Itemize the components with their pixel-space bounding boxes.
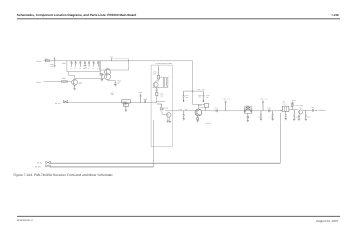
wire mixer collector <box>197 104 199 109</box>
capacitor C405 (pull-up) <box>139 92 143 103</box>
capacitor C423 (series out) <box>311 107 315 112</box>
connector J402 <box>46 161 50 163</box>
svg-text:L405: L405 <box>260 98 263 100</box>
svg-text:C: C <box>169 76 170 78</box>
svg-text:.39u: .39u <box>111 94 114 96</box>
svg-text:C423: C423 <box>311 107 315 109</box>
capacitor C402 (shunt at input) <box>50 57 56 67</box>
svg-text:MHZ: MHZ <box>84 67 87 69</box>
svg-text:CR401: CR401 <box>164 107 169 109</box>
transistor Q402 <box>72 79 83 85</box>
wire Q402 collector to cascode base <box>75 78 105 81</box>
transformer T401 <box>280 101 289 111</box>
label RX FRONTEND (box title) <box>156 62 173 64</box>
wire top rail <box>44 60 193 62</box>
resistor R404 (cascode base) <box>100 73 103 75</box>
supply arrow in box <box>157 66 160 76</box>
label R409 1K <box>292 100 296 104</box>
crystal filter Y401 <box>244 105 252 114</box>
capacitor C415 (series) <box>267 107 271 112</box>
node RX IN (top rail) <box>36 61 41 63</box>
inductor L404 (pull-up) <box>223 98 231 111</box>
label C410 .01u <box>160 93 164 97</box>
svg-text:RX IN: RX IN <box>36 61 41 63</box>
wire Q402 collector to box tap <box>68 72 74 80</box>
capacitor C421 (shunt) <box>298 114 300 120</box>
wire second stage input <box>44 81 72 83</box>
footer rule <box>17 215 340 217</box>
capacitor C422 (shunt) <box>305 110 311 120</box>
header rule <box>17 18 340 20</box>
inductor L405 (pull-up) <box>260 98 268 111</box>
wire Q405 base <box>162 110 167 114</box>
svg-text:RX FRONTEND 44.85M: RX FRONTEND 44.85M <box>156 62 173 64</box>
svg-text:1.2u: 1.2u <box>202 88 205 90</box>
svg-text:Figure 7-163. PML74035A Recei: Figure 7-163. PML74035A Receiver Front-e… <box>14 174 114 178</box>
figure caption <box>14 174 114 178</box>
svg-text:RX IN: RX IN <box>36 81 41 83</box>
transistor Q403a (cascode upper) <box>105 69 111 75</box>
svg-text:Schematics, Component Location: Schematics, Component Location Diagrams,… <box>17 14 137 18</box>
network box (Q401 collector) <box>99 61 128 70</box>
svg-text:C1: C1 <box>79 68 81 70</box>
wire cascode base feed <box>101 72 105 75</box>
resistor R409 leg <box>291 102 293 110</box>
svg-text:6816982H01-A: 6816982H01-A <box>17 219 34 222</box>
svg-text:C416: C416 <box>258 116 261 118</box>
inductor L407 label <box>197 88 204 90</box>
svg-text:R401: R401 <box>62 63 66 65</box>
footer date <box>316 220 339 224</box>
node RX IN 2 (antenna) <box>35 166 41 168</box>
diode CR401 <box>157 104 169 110</box>
svg-text:C412: C412 <box>179 108 183 110</box>
svg-text:C419 .01u 39p: C419 .01u 39p <box>295 105 304 107</box>
capacitor C420 (shunt) <box>293 110 299 121</box>
resistor R406 (vertical in box) <box>157 75 159 79</box>
capacitor C409 (in box) <box>156 87 158 95</box>
svg-text:C406: C406 <box>144 99 148 101</box>
supply +9.3V tick <box>110 56 129 61</box>
label R401 <box>62 63 66 65</box>
svg-text:C420: C420 <box>296 116 299 118</box>
svg-text:100: 100 <box>117 82 120 84</box>
svg-text:39p: 39p <box>206 96 209 98</box>
transistor Q404 (in box) <box>153 82 158 87</box>
wire antenna riser <box>279 113 281 163</box>
svg-text:RX IN: RX IN <box>37 162 42 164</box>
label R407 100 <box>198 94 202 98</box>
capacitor C417 (shunt) <box>269 111 273 121</box>
svg-text:C1: C1 <box>97 68 99 70</box>
svg-text:.01u 1T: .01u 1T <box>282 104 287 106</box>
transistor Q405 (box bottom) <box>167 113 171 117</box>
svg-text:18p: 18p <box>50 65 53 67</box>
capacitor C411 (tap from LO rail) <box>179 91 193 111</box>
svg-text:1.2u: 1.2u <box>227 98 230 100</box>
svg-text:LO INJ: LO INJ <box>206 122 211 124</box>
svg-text:44.85: 44.85 <box>83 65 87 67</box>
svg-text:RX IN 2: RX IN 2 <box>35 166 41 168</box>
svg-text:RX IN 3: RX IN 3 <box>55 102 61 104</box>
svg-text:C: C <box>161 76 162 78</box>
capacitor C413 (LO coupling) <box>193 91 205 102</box>
wire mixer top bus <box>193 103 205 105</box>
wire to IF OUT <box>314 109 317 111</box>
capacitor C416 (shunt) <box>258 111 262 121</box>
wire IF section <box>202 110 282 112</box>
capacitor C406 (on wire) <box>144 99 148 103</box>
capacitor C412 (shunt below) <box>183 111 185 121</box>
svg-text:R402: R402 <box>62 78 66 80</box>
wire mixer input <box>172 110 195 112</box>
header page number <box>331 14 338 17</box>
ground Q405 left <box>167 121 169 123</box>
svg-text:1K: 1K <box>292 102 294 104</box>
wire antenna line <box>50 162 280 164</box>
transistor Q406 mixer <box>195 105 203 116</box>
connector J401 <box>63 100 67 102</box>
wire box left drop <box>151 96 157 103</box>
ground below Q402 <box>73 85 75 90</box>
node RX IN (antenna) <box>37 162 42 164</box>
label L402 <box>110 92 114 96</box>
filter FL401 preselector box <box>67 61 101 72</box>
svg-text:C414: C414 <box>214 107 218 109</box>
svg-text:39p: 39p <box>185 108 188 110</box>
svg-text:T401: T401 <box>282 101 285 103</box>
wire antenna line 2 <box>50 166 154 168</box>
wire cascode emitter <box>108 80 116 83</box>
transistor Q407 buffer <box>299 108 303 115</box>
capacitor ladder in FL401 <box>70 61 99 70</box>
svg-text:1.2u: 1.2u <box>265 98 268 100</box>
svg-text:39p: 39p <box>186 96 189 98</box>
svg-text:Y401: Y401 <box>246 105 249 107</box>
svg-text:L404: L404 <box>223 98 226 100</box>
wire T401 to Q407 <box>289 110 299 111</box>
box RX front end <box>151 65 172 147</box>
wire buffer output <box>303 109 312 111</box>
capacitor C414 (series) <box>214 107 218 112</box>
svg-text:C415: C415 <box>267 107 271 109</box>
svg-text:Q407: Q407 <box>299 108 302 110</box>
wire R406 to Q404 <box>156 79 159 82</box>
header title text <box>17 14 137 18</box>
transistor Q403b (cascode lower) <box>105 74 111 80</box>
resistor R408 (mixer emitter) <box>197 116 199 122</box>
svg-text:C1: C1 <box>74 68 76 70</box>
svg-text:IF 44.85 MHZ: IF 44.85 MHZ <box>316 109 326 111</box>
node RX IN (second stage) <box>36 81 41 83</box>
footer document number <box>17 219 34 222</box>
wire top rail drop <box>192 61 194 105</box>
svg-text:100: 100 <box>153 73 156 75</box>
node IF OUT <box>316 109 326 111</box>
node RX IN 3 label <box>55 102 61 104</box>
resistor R402 <box>62 78 68 83</box>
ground Q405 right <box>169 121 171 123</box>
capacitor T401 bottom leg <box>285 111 287 120</box>
capacitor C407 (in box) <box>161 76 164 87</box>
svg-text:C417: C417 <box>269 116 272 118</box>
svg-text:100: 100 <box>198 96 201 98</box>
ground cascode base <box>101 75 103 81</box>
svg-text:C1: C1 <box>88 68 90 70</box>
connector J403 <box>46 165 50 167</box>
wire box to antenna line <box>153 120 155 167</box>
transformer T402 (LO) <box>205 103 209 110</box>
label 44.85 MHZ in FL401 <box>83 65 87 69</box>
svg-text:7-238: 7-238 <box>331 14 338 17</box>
svg-text:.01u: .01u <box>160 95 163 97</box>
inductor L401 <box>44 58 49 62</box>
filter FL402 <box>122 100 131 103</box>
wire box mid bus <box>153 86 169 88</box>
capacitor C408 (in box) <box>158 76 169 87</box>
svg-text:August 24, 2007: August 24, 2007 <box>316 220 339 224</box>
svg-text:C422: C422 <box>307 117 310 119</box>
svg-text:MIXER: MIXER <box>199 107 203 109</box>
label C419 row <box>295 105 304 107</box>
wire Q405 legs <box>168 117 170 121</box>
svg-text:L407: L407 <box>197 88 200 90</box>
svg-text:L401: L401 <box>44 58 48 60</box>
label LO INJ <box>206 122 211 124</box>
svg-text:9.3V: 9.3V <box>110 56 113 58</box>
svg-text:C1: C1 <box>70 68 72 70</box>
crystal filter ground leg <box>247 114 249 122</box>
wire front-end input <box>64 102 151 104</box>
wire box output <box>165 110 172 112</box>
svg-text:Q402: Q402 <box>78 82 82 84</box>
svg-text:C1: C1 <box>92 68 94 70</box>
inductor L403 (below FL402) <box>124 103 129 112</box>
wire box mid h <box>156 100 165 102</box>
label C413 <box>206 94 210 98</box>
capacitor C404 (emitter bypass) <box>114 80 121 86</box>
label R405 100 <box>153 71 157 75</box>
